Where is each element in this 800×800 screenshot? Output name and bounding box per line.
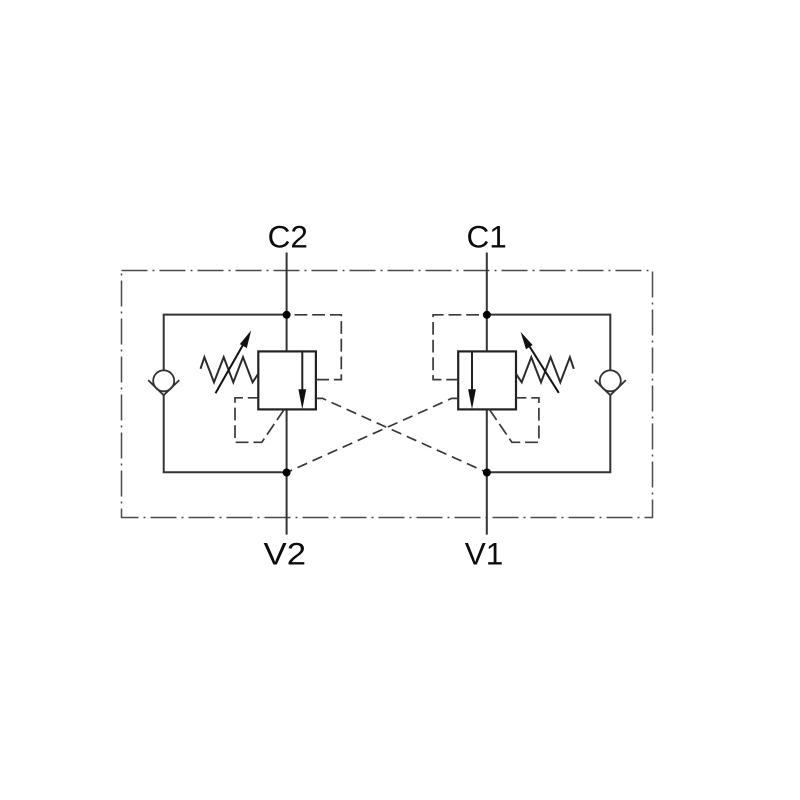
svg-text:C1: C1 [466, 218, 506, 254]
svg-text:C2: C2 [268, 218, 308, 254]
svg-text:V2: V2 [264, 536, 307, 572]
svg-text:V1: V1 [465, 536, 504, 572]
